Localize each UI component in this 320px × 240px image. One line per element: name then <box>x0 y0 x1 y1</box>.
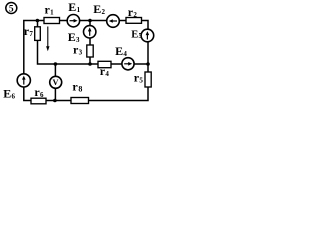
svg-text:V: V <box>53 78 59 87</box>
svg-text:5: 5 <box>9 4 14 14</box>
svg-text:E5: E5 <box>131 29 142 40</box>
